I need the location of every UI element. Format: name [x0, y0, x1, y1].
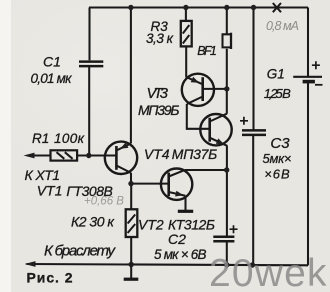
- wire BF1 to VT4 collector: [226, 49, 228, 114]
- VT2 emitter arrow: [175, 191, 183, 197]
- node dot top rail 1: [128, 5, 133, 10]
- svg-text:Рис. 2: Рис. 2: [27, 270, 73, 286]
- VT3 emitter arrow: [191, 77, 200, 83]
- wire C1 branch upper: [88, 8, 90, 61]
- svg-text:G1: G1: [267, 67, 285, 82]
- capacitor C1: [79, 60, 103, 63]
- ground at VT2 emitter: [184, 196, 186, 210]
- wire VT1 emitter to top rail: [130, 8, 132, 144]
- wire VT3 base right: [203, 88, 227, 90]
- plus C2: [230, 225, 238, 233]
- svg-text:+0,66 В: +0,66 В: [84, 196, 124, 208]
- svg-text:VT3: VT3: [147, 85, 169, 102]
- wire right rail upper: [252, 8, 254, 131]
- transistor VT4: [200, 114, 231, 145]
- svg-text:100к: 100к: [54, 131, 85, 146]
- svg-text:К2 30 к: К2 30 к: [71, 213, 115, 229]
- arrow to XT1: [24, 153, 35, 159]
- minus battery: [315, 84, 323, 86]
- wire R1 to VT1 base: [77, 154, 116, 156]
- wire C3 to bottom rail: [252, 135, 254, 265]
- svg-text:5 мк × 6В: 5 мк × 6В: [154, 247, 207, 262]
- resistor R2: [126, 209, 138, 237]
- svg-text:1,25 В: 1,25 В: [264, 86, 291, 101]
- node dot bottom 3: [250, 262, 255, 267]
- svg-text:C3: C3: [270, 135, 290, 152]
- svg-text:0,01 мк: 0,01 мк: [31, 71, 73, 86]
- svg-text:МП37Б: МП37Б: [172, 146, 218, 162]
- resistor R1: [51, 150, 78, 160]
- wire R1 left lead: [27, 154, 51, 156]
- wire VT4 emitter down: [226, 146, 228, 237]
- svg-text:5мк×: 5мк×: [263, 151, 292, 166]
- plus C3: [240, 117, 248, 125]
- wire battery bottom lead: [307, 82, 309, 266]
- wire node A to VT2 base: [131, 183, 169, 185]
- capacitor C3: [242, 129, 266, 132]
- wire VT3 collector to VT4 base: [187, 104, 210, 129]
- svg-text:20wek: 20wek: [209, 252, 328, 292]
- wire battery top lead: [307, 8, 309, 77]
- svg-text:3,3 к: 3,3 к: [146, 31, 174, 46]
- svg-text:МП39Б: МП39Б: [138, 102, 180, 118]
- arrow to bracelet: [25, 261, 36, 267]
- svg-text:BF1: BF1: [197, 44, 217, 58]
- node dot VT2 collector: [224, 167, 229, 172]
- wire VT1 collector down: [130, 173, 132, 184]
- svg-text:VT2: VT2: [138, 217, 164, 233]
- capacitor C2: [213, 235, 234, 238]
- wire R2 to bottom rail: [130, 237, 132, 265]
- svg-text:C1: C1: [43, 54, 61, 70]
- VT4 emitter arrow: [216, 138, 225, 144]
- wire VT2 collector right: [185, 169, 227, 171]
- node dot VT1 collector: [128, 181, 133, 186]
- node dot bottom 1: [129, 262, 134, 267]
- svg-text:VT1: VT1: [37, 183, 63, 199]
- wire top rail: [89, 6, 308, 8]
- ground at bottom rail: [130, 265, 132, 278]
- svg-text:R1: R1: [32, 131, 49, 146]
- transistor VT3: [182, 74, 214, 106]
- node dot C1/R1: [86, 153, 91, 158]
- transistor VT2: [161, 169, 192, 200]
- svg-text:0,8 мА: 0,8 мА: [266, 19, 299, 33]
- wire C2 to bottom rail: [226, 241, 228, 265]
- resistor R3: [181, 21, 192, 47]
- VT1 emitter arrow: [120, 143, 128, 149]
- battery G1: [293, 76, 322, 78]
- plus battery: [312, 61, 320, 69]
- node dot VT3 base: [224, 86, 229, 91]
- svg-text:К браслету: К браслету: [44, 243, 117, 260]
- wire R3 to VT3 emitter: [185, 46, 187, 77]
- wire C1 branch lower: [88, 67, 90, 156]
- svg-text:К ХТ1: К ХТ1: [25, 167, 61, 183]
- svg-text:VT4: VT4: [144, 146, 170, 162]
- wire R3 top lead: [185, 8, 187, 21]
- node dot top rail 4: [251, 5, 256, 10]
- node dot top rail 3: [224, 5, 229, 10]
- wire BF1 top lead: [226, 8, 228, 35]
- svg-text:C2: C2: [168, 231, 186, 247]
- node dot top rail 2: [183, 5, 188, 10]
- wire node A to R2: [130, 184, 132, 210]
- node dot bottom 2: [224, 262, 229, 267]
- current break mark X: [273, 3, 281, 12]
- transistor VT1: [105, 142, 137, 174]
- sound emitter BF1: [223, 34, 231, 47]
- svg-text:×6В: ×6В: [264, 167, 290, 182]
- wire bottom rail: [27, 264, 309, 265]
